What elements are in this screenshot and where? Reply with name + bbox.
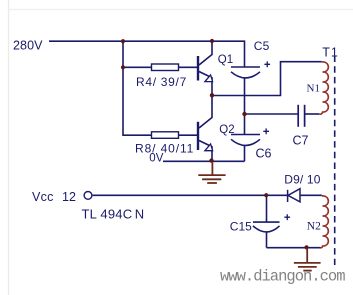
svg-text:0V: 0V (149, 153, 163, 165)
svg-text:Q2: Q2 (219, 124, 234, 136)
svg-text:C15: C15 (230, 220, 252, 234)
svg-text:280V: 280V (13, 39, 43, 53)
svg-text:12: 12 (62, 190, 76, 204)
svg-text:R4/ 39/7: R4/ 39/7 (136, 75, 187, 89)
svg-text:Q1: Q1 (218, 54, 233, 66)
svg-text:D9/ 10: D9/ 10 (284, 173, 320, 187)
svg-text:C5: C5 (254, 39, 270, 53)
svg-text:N: N (135, 206, 144, 221)
svg-text:N1: N1 (307, 83, 320, 95)
svg-text:Vcc: Vcc (32, 190, 54, 204)
svg-text:C7: C7 (293, 134, 309, 148)
svg-text:R8/ 40/11: R8/ 40/11 (135, 142, 194, 156)
svg-text:N2: N2 (307, 220, 321, 232)
svg-text:www.diangon.com: www.diangon.com (220, 268, 345, 286)
svg-text:TL 494C: TL 494C (82, 206, 133, 221)
svg-text:T1: T1 (322, 46, 339, 60)
svg-text:C6: C6 (256, 147, 272, 161)
